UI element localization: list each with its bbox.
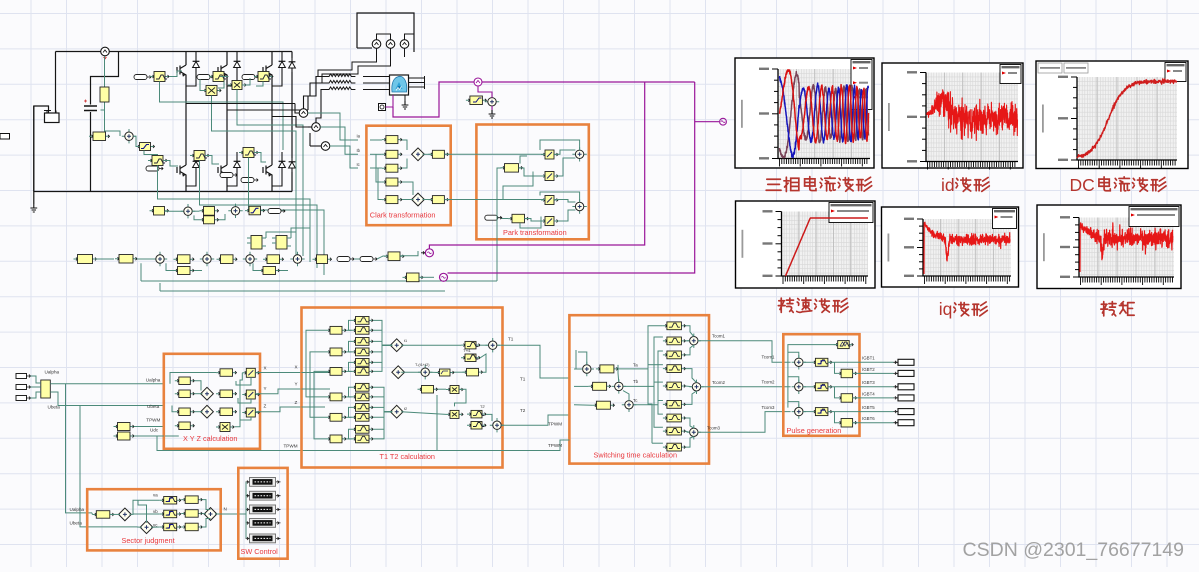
SW switch column [663, 325, 686, 327]
wire: Ualpha down to sector [66, 384, 93, 513]
sector sum2 [140, 521, 153, 534]
IGBT Q1 (top leg 1) [185, 52, 187, 61]
lookup table LUT4 [250, 519, 276, 528]
wire: T1 to switching [503, 345, 570, 378]
gate driver block GD2b multiply [202, 90, 221, 92]
gate driver block GD5 [190, 155, 209, 157]
wire: purple scope stub [695, 121, 719, 123]
wire: clark internals [370, 139, 382, 141]
svg-text:IGBT4: IGBT4 [862, 391, 875, 396]
wire: col to tcom sums [685, 326, 693, 337]
Park sum1 [572, 147, 586, 161]
XYZ row3 [175, 411, 195, 413]
winding R-L phase b [325, 80, 355, 83]
wire: phase node leg 2 [226, 80, 228, 110]
wire: DC link branch [91, 52, 119, 105]
port P-n (neutral) [379, 104, 386, 111]
svg-text:Y: Y [264, 386, 267, 391]
demux block (tall) [41, 380, 51, 398]
svg-text:X: X [264, 366, 267, 371]
svg-text:t2: t2 [404, 407, 407, 411]
input port Ualpha [16, 374, 27, 379]
svg-text:Ic: Ic [357, 162, 360, 167]
Park block theta [501, 167, 523, 169]
SW sum c [622, 398, 636, 412]
T1T2 mult2 [446, 413, 463, 415]
gate switch S2 [210, 76, 214, 79]
block Vref1 [89, 135, 110, 137]
port w-scope [720, 118, 727, 125]
caption: san-xiang-dian-liu-bo-xing (three-phase current) [766, 179, 781, 190]
diode leg D8 (clamp, bottom) [291, 158, 293, 172]
gate switch S5 [233, 174, 237, 177]
sector gain [92, 514, 114, 516]
carrier block [834, 344, 854, 346]
svg-text:T1: T1 [508, 337, 514, 342]
svg-text:IGBT6: IGBT6 [862, 416, 875, 421]
block Ualpha-out [403, 276, 424, 278]
T1T2 sum out1 [486, 338, 500, 352]
wire: Tcom2 out [701, 386, 791, 388]
SW gain c [592, 404, 614, 406]
block Vref2 [150, 210, 169, 212]
subsystem box: SW Control [238, 468, 287, 559]
current sensor A-dc [101, 47, 110, 56]
svg-text:Ualpha: Ualpha [45, 370, 60, 375]
wire: t1t2 gain to switch pairs [346, 329, 352, 331]
svg-text:T-(t1+t2): T-(t1+t2) [415, 363, 430, 367]
T1T2 blk low [418, 388, 438, 390]
wire: park internals [497, 168, 502, 281]
subsystem box: T1 T2 calculation [302, 308, 503, 468]
output port IGBT5 [894, 410, 899, 413]
output port IGBT3 [894, 385, 899, 388]
wire: T2 to switching [503, 415, 570, 425]
caption: zhuan-ju (torque) [1101, 302, 1116, 316]
subsystem box: Park transformation [476, 125, 588, 240]
ground G1 [30, 204, 37, 212]
block PI-1 [174, 258, 195, 260]
Park sum2 [572, 199, 586, 213]
wire: switch col to sums [373, 320, 392, 345]
wire: purple vertical 1 [429, 82, 644, 249]
wire: sw left internals [574, 368, 583, 370]
XYZ row1 blocks [175, 380, 195, 382]
svg-text:Tcom3: Tcom3 [707, 426, 720, 431]
svg-text:N: N [224, 507, 227, 512]
output port IGBT6 [894, 421, 899, 424]
svg-text:Ualpha: Ualpha [146, 378, 161, 383]
sum speed [485, 95, 499, 109]
IGBT Q3 (top leg 3) [271, 52, 273, 61]
block PI-speed [74, 258, 97, 260]
speed sensor W1 [474, 78, 482, 86]
cmp vb [160, 513, 181, 515]
wire: purple vertical 2 [448, 82, 695, 273]
svg-text:X Y Z calculation: X Y Z calculation [183, 434, 238, 443]
block G-1 [313, 258, 332, 260]
wire: Y to T1T2 [255, 389, 330, 394]
svg-text:Pulse generation: Pulse generation [787, 426, 842, 435]
NOT block NB3 [837, 422, 857, 424]
current sensor ib [312, 123, 321, 132]
SW sum b [612, 379, 626, 393]
svg-text:T2': T2' [480, 405, 485, 409]
gate driver block GD3 [254, 76, 273, 78]
gate switch S3 [255, 76, 259, 79]
wire: Ubeta bus [50, 392, 164, 406]
svg-text:T1 T2 calculation: T1 T2 calculation [380, 452, 435, 461]
wire: long feedback rails [141, 280, 497, 282]
block G-2 [384, 255, 404, 257]
wire: windings to motor [363, 76, 390, 78]
wire: motor right stubs [409, 76, 425, 89]
port torque-out [440, 273, 448, 281]
gate switch S4 [159, 167, 163, 170]
svg-text:Tcom3: Tcom3 [762, 405, 775, 410]
T1T2 sum out2 [490, 418, 504, 432]
subsystem box: Pulse generation [783, 334, 859, 436]
svg-text:TPWM: TPWM [146, 417, 160, 422]
lookup table LUT3 [250, 505, 276, 514]
wire: X to T1T2 [255, 372, 330, 374]
wire: Z to T1T2 [255, 407, 325, 412]
diode D3 (antiparallel top leg 3) [281, 52, 283, 59]
T1T2 sw T2 b [467, 424, 486, 426]
SW gain a [596, 368, 618, 370]
diode leg D7 (clamp, top) [291, 52, 293, 59]
output port IGBT1 [894, 361, 899, 364]
svg-text:vb: vb [153, 509, 158, 514]
subsystem box: Clark transformation [366, 126, 450, 226]
T1T2 sw T+t1 a [461, 344, 480, 346]
on-off controller OC1 [811, 361, 832, 363]
wire: DC+ rail [56, 51, 101, 53]
gate driver block GD1 [150, 76, 169, 78]
XYZ row4 [175, 425, 195, 427]
T1T2 mult1 [446, 389, 463, 391]
block TPWM const [114, 426, 135, 428]
sector sum out [204, 508, 217, 521]
diode D1 (antiparallel top leg 1) [195, 52, 197, 59]
wire: TPWM to switching box [437, 440, 569, 451]
wire: sensors to Clark inputs ia ib ic [308, 113, 358, 140]
block FB-1 [174, 270, 195, 272]
NOT block NB2 [837, 397, 857, 399]
limiter speed [466, 99, 487, 101]
wire: gate signal bus teal verticals [160, 82, 284, 151]
wire: gate bus into tall blocks [266, 232, 296, 238]
comparator CMP3 [792, 404, 806, 418]
cmp va [160, 499, 181, 501]
input port Udc-in [16, 396, 27, 401]
lookup table LUT2 [250, 491, 276, 500]
subsystem box: Switching time calculation [569, 315, 709, 463]
gate driver block GD6 [239, 152, 258, 154]
gate switch S6 [254, 179, 258, 182]
gate driver block GD2 [209, 76, 228, 78]
wire: DC- bus [34, 191, 292, 193]
wire: phase node leg 1 [185, 80, 187, 104]
output port IGBT2 [894, 372, 899, 375]
on-off controller OC2 [811, 386, 832, 388]
wire: vdc to sum [105, 110, 121, 136]
svg-text:Ualpha: Ualpha [70, 507, 85, 512]
Clark sum 1 [412, 148, 425, 161]
IGBT Q2 (top leg 2) [226, 52, 228, 61]
T1T2 switch column [352, 319, 374, 321]
switch SW-spd [281, 210, 285, 213]
XYZ row2 [175, 393, 195, 395]
lookup table LUT1 [250, 478, 276, 487]
wire: inverter outputs to current taps [186, 103, 295, 105]
sum SUM4 [200, 252, 214, 266]
wire: t1t2 left fan [306, 330, 326, 372]
svg-text:Clark transformation: Clark transformation [370, 211, 436, 220]
Clark out block 2 [428, 199, 448, 201]
capacitor C-dc [84, 106, 97, 111]
block FB-speed [200, 219, 219, 221]
svg-text:Tcom2: Tcom2 [762, 380, 775, 385]
svg-text:t1: t1 [404, 339, 407, 343]
scope SC5: iq current [882, 207, 1019, 287]
svg-text:TPWM: TPWM [548, 443, 562, 448]
output port IGBT4 [894, 396, 899, 399]
motor M1 (PMSM) [390, 75, 409, 95]
scope SC1: three-phase current [735, 58, 874, 168]
winding R-L phase a [325, 74, 355, 77]
wire: Tcom1 out [698, 341, 791, 363]
block TL (tall 1) [251, 236, 262, 250]
svg-text:Tcom1: Tcom1 [762, 355, 775, 360]
comparator CMP2 [792, 380, 806, 394]
wire: Ualpha bus [50, 383, 164, 385]
scope SC3: DC current [1036, 61, 1188, 169]
port speed-out [425, 249, 433, 257]
block w-ref [115, 258, 137, 260]
wire: Ubeta down to sector [80, 406, 137, 528]
Park port [498, 216, 502, 219]
gain va [181, 499, 202, 501]
diode D4 (antiparallel bottom leg 1) [195, 152, 197, 158]
svg-text:Ubeta: Ubeta [147, 404, 160, 409]
svg-text:Sector judgment: Sector judgment [122, 536, 175, 545]
wire: carrier rail [788, 345, 838, 408]
scope SC6: torque [1037, 205, 1181, 289]
current sensor ib-top [386, 40, 395, 49]
svg-text:CSDN @2301_76677149: CSDN @2301_76677149 [963, 539, 1184, 561]
svg-text:IGBT3: IGBT3 [862, 380, 875, 385]
switch SW-b [373, 258, 377, 261]
svg-text:Tb: Tb [633, 379, 639, 384]
T1T2 sw T2 a [467, 413, 486, 415]
svg-text:Z: Z [295, 400, 298, 405]
svg-text:IGBT1: IGBT1 [862, 356, 875, 361]
T1T2 sw T+t1 b [461, 357, 480, 359]
svg-text:TPWM: TPWM [284, 444, 298, 449]
Clark out block 1 [428, 153, 448, 155]
T1T2 gain mid [463, 371, 483, 373]
scope SC4: speed [736, 201, 876, 288]
wire: TPWM long [157, 395, 437, 451]
sum SUM2 [181, 204, 195, 218]
wire: N to SW control [215, 482, 246, 514]
sum SUM2b [228, 204, 242, 218]
diode D5 (antiparallel bottom leg 2) [236, 152, 238, 158]
SW gain b [589, 385, 611, 387]
Clark sum 2 [412, 193, 425, 206]
sector sum1 [119, 508, 132, 521]
Park K4 [541, 220, 558, 222]
diode D6 (antiparallel bottom leg 3) [281, 152, 283, 158]
wire: sensor drops to phase lines [318, 48, 377, 76]
SW sum a [580, 362, 594, 376]
T1T2 sqrt block [436, 372, 455, 374]
sum SUM5 [243, 252, 257, 266]
current sensor ic [321, 142, 330, 151]
diode D2 (antiparallel top leg 2) [236, 52, 238, 59]
gate driver block GD4 [148, 160, 167, 162]
T1T2 mid sum1 [392, 366, 405, 379]
block PI-3 [263, 258, 284, 260]
comparator CMP1 [792, 355, 806, 369]
sum SUM6 [290, 252, 304, 266]
svg-text:T+t1: T+t1 [463, 349, 471, 353]
svg-text:iq: iq [939, 299, 953, 319]
svg-text:TPWM: TPWM [548, 422, 562, 427]
wire: phase node leg 3 [271, 80, 273, 117]
svg-text:DC: DC [1070, 175, 1095, 195]
svg-text:id: id [941, 175, 955, 195]
caption: zhuan-su-bo-xing (speed) [778, 298, 793, 312]
block PI-speed2 [200, 210, 219, 212]
SW sum Tcom2 [689, 380, 703, 394]
input port Ubeta [16, 385, 27, 390]
wire: sw column feeds [618, 326, 663, 369]
gain vc [181, 526, 202, 528]
SW sum Tcom1 [687, 334, 701, 348]
wire: xyz internals [170, 373, 216, 384]
on-off controller OC3 [811, 411, 832, 413]
svg-text:Park transformation: Park transformation [503, 228, 567, 237]
winding R-L phase c [325, 87, 355, 90]
svg-text:IGBT2: IGBT2 [862, 367, 875, 372]
wire: battery positive to DC+ rail [55, 52, 57, 114]
Clark gain blocks [382, 139, 402, 141]
T1T2 left gain blocks [326, 329, 346, 331]
ground G2 (motor frame) [404, 95, 406, 101]
IGBT Q6 (bottom leg 3) [271, 117, 273, 161]
gate driver block GD3b [228, 84, 246, 86]
wire: Tcom3 out [698, 412, 791, 433]
Park K2 [541, 175, 558, 177]
gate switch S1 [147, 76, 151, 79]
sum SUM1 [122, 129, 136, 143]
svg-text:Ubeta: Ubeta [70, 521, 83, 526]
block LIM2 [245, 210, 265, 212]
IGBT Q4 (bottom leg 1) [185, 104, 187, 161]
block Vdc-sense (tall) [101, 56, 105, 110]
svg-text:Tcom1: Tcom1 [712, 334, 725, 339]
T1T2 mid sum2 [418, 365, 432, 379]
svg-text:IGBT5: IGBT5 [862, 405, 875, 410]
block FB-2 [259, 270, 280, 272]
wire: sector internals [91, 513, 93, 515]
wire: measurement loop rectangle [357, 13, 414, 52]
svg-text:T2: T2 [520, 408, 526, 413]
subsystem box: Sector judgment [87, 489, 221, 550]
svg-text:Tcom2: Tcom2 [712, 380, 725, 385]
svg-text:Ta: Ta [633, 363, 638, 368]
svg-text:Y: Y [295, 382, 298, 387]
subsystem box: X Y Z calculation [164, 354, 260, 449]
Park K1 [541, 154, 558, 156]
wire: speed signal purple main [393, 82, 695, 117]
svg-text:X: X [295, 365, 298, 370]
block PI-2 [217, 258, 238, 260]
battery B1 [45, 113, 60, 123]
lookup table LUT5 [250, 534, 276, 543]
wire: battery negative to ground rail [34, 106, 49, 204]
wire: t1 to right [401, 344, 461, 346]
current sensor ia [299, 109, 308, 118]
T1T2 sum t2 [390, 405, 403, 418]
svg-text:SW Control: SW Control [241, 547, 279, 556]
T1T2 sum t1 [390, 339, 403, 352]
IGBT Q5 (bottom leg 2) [226, 110, 228, 160]
block TR (tall 2) [276, 236, 287, 250]
svg-text:Switching time calculation: Switching time calculation [594, 451, 678, 460]
block Udc const [114, 435, 135, 437]
sum SUM3 [153, 252, 167, 266]
switch SW-a [350, 258, 354, 261]
SW sum Tcom3 [687, 425, 701, 439]
svg-text:Udc: Udc [150, 427, 159, 432]
svg-text:Z: Z [264, 404, 267, 409]
svg-text:T1: T1 [520, 377, 526, 382]
current sensor ia-top [372, 40, 381, 49]
port P-left [0, 134, 10, 140]
current sensor ic-top [400, 40, 409, 49]
wire: Ualpha bus through park [444, 153, 545, 155]
NOT block NB1 [837, 372, 857, 374]
cmp vc [160, 526, 181, 528]
scope SC2: id current [882, 63, 1023, 168]
svg-text:va: va [153, 492, 158, 497]
gain vb [181, 513, 202, 515]
limiter LIM1 [136, 146, 155, 148]
Park K3 [541, 199, 558, 201]
Park block speed [508, 218, 529, 220]
